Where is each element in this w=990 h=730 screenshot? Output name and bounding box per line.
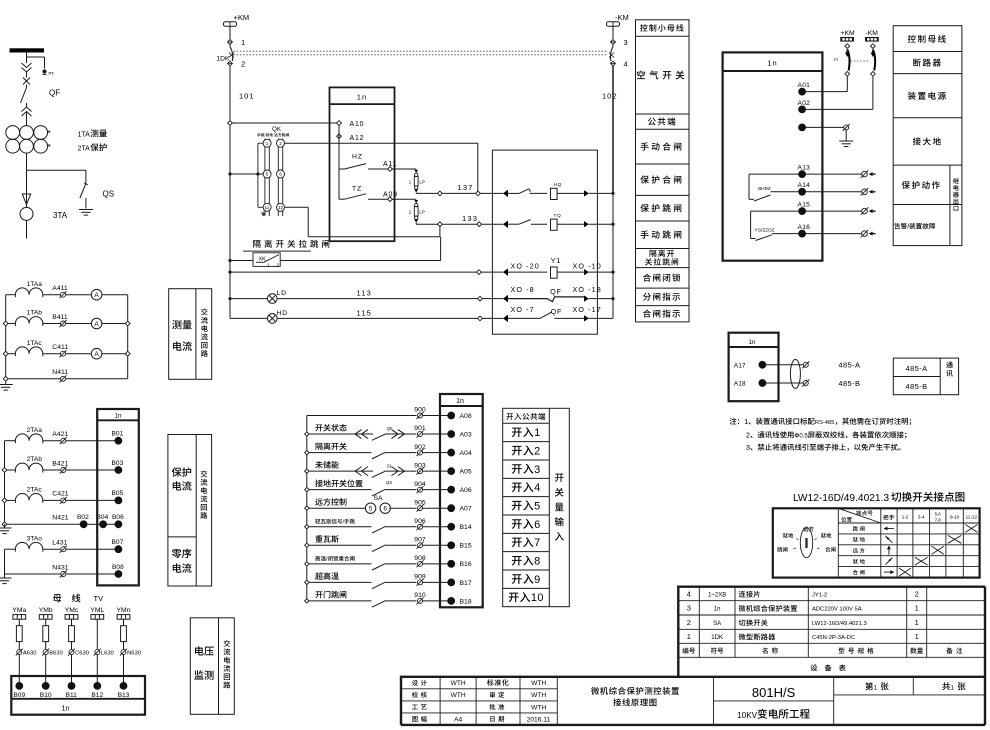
link 2LP bbox=[414, 200, 418, 203]
wire 101 to Y1 row bbox=[228, 271, 231, 274]
svg-text:2016.11: 2016.11 bbox=[527, 716, 551, 723]
svg-text:XO -20: XO -20 bbox=[511, 262, 540, 271]
svg-text:XO -18: XO -18 bbox=[573, 285, 602, 294]
svg-text:4: 4 bbox=[624, 60, 628, 69]
breaker QF bbox=[26, 85, 28, 88]
svg-text:LW12-16D/49.4021.3: LW12-16D/49.4021.3 bbox=[793, 493, 889, 504]
node 137 bbox=[438, 191, 443, 196]
lamp HD bbox=[230, 317, 268, 319]
svg-text:+KM: +KM bbox=[841, 30, 856, 37]
svg-text:A11: A11 bbox=[383, 161, 397, 168]
breaker pole -KM bbox=[871, 44, 876, 49]
svg-text:XO -10: XO -10 bbox=[573, 262, 602, 271]
title row 图幅 bbox=[412, 716, 417, 722]
wire XK to trip net bbox=[280, 260, 440, 262]
svg-text:N421: N421 bbox=[52, 515, 68, 522]
fuse YMn bbox=[121, 626, 127, 642]
svg-text:TZ: TZ bbox=[352, 186, 362, 193]
node 133 bbox=[438, 222, 443, 227]
drawout chevrons lower bbox=[22, 107, 32, 112]
aux contact QF row closed bbox=[482, 298, 503, 300]
DI row 909 B17 bbox=[305, 580, 309, 584]
svg-text:1: 1 bbox=[241, 38, 245, 47]
shield ellipse bbox=[790, 359, 800, 388]
aux contact QF row open bbox=[482, 317, 503, 319]
svg-text:YMb: YMb bbox=[39, 607, 53, 614]
svg-text:1TAc: 1TAc bbox=[27, 340, 43, 347]
wire QK 2 to node 137 drop bbox=[285, 142, 478, 144]
svg-text:3: 3 bbox=[746, 443, 750, 452]
svg-text:QS: QS bbox=[386, 480, 392, 485]
device 1n DI box bbox=[440, 394, 483, 607]
wire QK 12 to trip net bbox=[285, 206, 309, 208]
label box 电压监测 bbox=[190, 618, 234, 715]
CT zero sequence 3TAo bbox=[4, 549, 6, 574]
wire A02 to -KM bbox=[806, 108, 873, 110]
svg-text:2TAc: 2TAc bbox=[27, 487, 43, 494]
svg-text:10: 10 bbox=[531, 592, 544, 604]
wire - feeder drop from busbar bbox=[26, 53, 28, 64]
svg-text:A: A bbox=[94, 292, 99, 299]
svg-text:11-12: 11-12 bbox=[966, 514, 978, 519]
DI row 905 A07 bbox=[305, 506, 309, 510]
X mark row 4 bbox=[915, 557, 928, 565]
svg-text:1n: 1n bbox=[767, 59, 777, 68]
X mark row 2 bbox=[948, 535, 961, 543]
svg-text:9-10: 9-10 bbox=[950, 514, 960, 519]
svg-text:7-8: 7-8 bbox=[935, 518, 942, 523]
svg-text:LP: LP bbox=[419, 179, 424, 184]
terminal B12 bbox=[94, 683, 101, 690]
terminal L630 bbox=[95, 650, 100, 655]
svg-text:B02: B02 bbox=[77, 514, 89, 521]
svg-text:9: 9 bbox=[534, 574, 541, 586]
latch coil Y1 row bbox=[481, 271, 503, 273]
CT 1TA 2TA winding circles bbox=[6, 126, 20, 140]
contact XK box bbox=[253, 253, 280, 267]
terminal A13 bbox=[799, 171, 806, 178]
QK contacts 1 5 11 bbox=[263, 139, 271, 147]
drawing title text bbox=[591, 687, 599, 695]
DI row 910 B18 bbox=[305, 599, 309, 603]
wire 101 to XK bbox=[228, 259, 231, 262]
parts table thick frame bbox=[678, 586, 985, 588]
title row 工艺 bbox=[412, 705, 418, 710]
svg-text:A01: A01 bbox=[798, 82, 811, 89]
DI row 901 A03 bbox=[305, 432, 309, 436]
contact BHDZ bbox=[749, 173, 799, 175]
svg-text:1: 1 bbox=[534, 427, 541, 439]
svg-text:B16: B16 bbox=[460, 561, 472, 568]
svg-text:1TAa: 1TAa bbox=[27, 281, 43, 288]
wire HD to XO-7 row, node 115 bbox=[277, 317, 478, 319]
mechanical link dashed bbox=[234, 50, 609, 52]
svg-text:1: 1 bbox=[687, 632, 691, 641]
svg-text:QF: QF bbox=[387, 426, 393, 431]
svg-text:B18: B18 bbox=[460, 598, 472, 605]
X mark row 5 bbox=[899, 568, 911, 576]
svg-text:A10: A10 bbox=[350, 121, 365, 128]
ground protection loop bbox=[4, 524, 6, 528]
terminal B05 bbox=[115, 497, 122, 504]
svg-text:L630: L630 bbox=[101, 651, 114, 657]
DI row 907 B15 bbox=[305, 543, 309, 547]
terminal XO-8 bbox=[478, 296, 483, 301]
breaker cross mark bbox=[23, 78, 30, 85]
svg-text:1: 1 bbox=[266, 141, 269, 146]
svg-text:QF: QF bbox=[49, 89, 60, 98]
svg-text:A07: A07 bbox=[460, 506, 472, 513]
label 开关量输入 bbox=[555, 474, 564, 482]
svg-text:2: 2 bbox=[409, 210, 412, 215]
wire 137 to HQ bbox=[480, 192, 503, 194]
wire 101 to A10 bbox=[232, 122, 336, 124]
label 母线 TV bbox=[53, 594, 61, 602]
svg-text:1: 1 bbox=[915, 604, 919, 613]
svg-text:WTH: WTH bbox=[531, 704, 546, 711]
terminal case earth bbox=[799, 124, 806, 131]
busbar bbox=[10, 48, 45, 52]
trip coil TQ row bbox=[503, 220, 508, 228]
label 设备表 bbox=[811, 665, 818, 672]
title block bbox=[401, 688, 557, 690]
svg-text:1TAb: 1TAb bbox=[27, 310, 43, 317]
DI row 908 B16 bbox=[305, 562, 309, 566]
lamp LD bbox=[228, 297, 231, 300]
svg-text:HD: HD bbox=[277, 310, 288, 317]
terminal A09 bbox=[388, 197, 393, 202]
terminal 4 bbox=[611, 61, 616, 66]
svg-text:3: 3 bbox=[534, 464, 541, 476]
svg-text:WTH: WTH bbox=[531, 680, 546, 687]
svg-text:YMa: YMa bbox=[12, 607, 26, 614]
svg-text:3TA: 3TA bbox=[53, 211, 68, 220]
output terminal row A13 bbox=[806, 173, 862, 175]
svg-text:485-B: 485-B bbox=[906, 382, 928, 391]
svg-text:485-A: 485-A bbox=[906, 364, 928, 373]
contact YG/ZZDZ bbox=[751, 210, 799, 212]
svg-text:A12: A12 bbox=[350, 135, 365, 142]
svg-text:10KV: 10KV bbox=[737, 711, 758, 720]
wire A10-A12 internal bbox=[338, 125, 340, 199]
svg-text:A4: A4 bbox=[454, 716, 462, 723]
svg-text:B03: B03 bbox=[112, 460, 124, 467]
svg-text:C411: C411 bbox=[52, 344, 68, 351]
svg-text:1: 1 bbox=[915, 618, 919, 627]
svg-text:1DK: 1DK bbox=[711, 635, 723, 641]
header diagonal bbox=[838, 508, 881, 523]
CT 3TA zero-seq circle bbox=[20, 207, 33, 220]
svg-text:6: 6 bbox=[279, 172, 282, 177]
wire A01 to +KM bbox=[806, 91, 848, 93]
svg-text:2: 2 bbox=[534, 446, 541, 458]
svg-text:XO -7: XO -7 bbox=[511, 305, 535, 314]
terminal 1 bbox=[228, 40, 233, 45]
svg-text:XO -8: XO -8 bbox=[511, 285, 535, 294]
svg-text:B04: B04 bbox=[97, 514, 109, 521]
svg-text:A05: A05 bbox=[460, 469, 472, 476]
svg-text:B411: B411 bbox=[52, 314, 68, 321]
svg-text:4: 4 bbox=[687, 589, 691, 598]
terminal C630 bbox=[69, 650, 74, 655]
svg-text:B01: B01 bbox=[112, 431, 124, 438]
svg-text:XO -17: XO -17 bbox=[573, 305, 602, 314]
svg-text:A08: A08 bbox=[460, 413, 472, 420]
svg-text:-KM: -KM bbox=[615, 13, 629, 22]
drawout chevrons upper bbox=[22, 63, 32, 68]
svg-text:A: A bbox=[94, 351, 99, 358]
switch SA contact table bbox=[773, 508, 980, 577]
ground at QS bbox=[79, 209, 93, 211]
svg-text:1TA: 1TA bbox=[78, 132, 91, 139]
wire A11 to link 1LP bbox=[392, 168, 416, 170]
svg-text:JY1-2: JY1-2 bbox=[812, 592, 827, 598]
wire phase row N421 bbox=[5, 523, 81, 525]
svg-text:HZ: HZ bbox=[352, 154, 363, 161]
DI row 906 B14 bbox=[305, 525, 309, 529]
wire left rail measurement bbox=[5, 295, 7, 379]
svg-text:A06: A06 bbox=[460, 487, 472, 494]
terminal A16 bbox=[799, 230, 806, 237]
terminal B01 bbox=[115, 437, 122, 444]
legend table device bbox=[893, 26, 962, 246]
svg-text:3TAo: 3TAo bbox=[27, 535, 43, 542]
svg-text:Y1: Y1 bbox=[551, 256, 562, 265]
wire 2LP to node 133 bbox=[415, 223, 417, 225]
terminal B11 bbox=[68, 683, 75, 690]
svg-text:1: 1 bbox=[874, 686, 878, 692]
terminal A630 bbox=[17, 650, 22, 655]
wire N431 bbox=[5, 573, 61, 575]
svg-text:1n: 1n bbox=[456, 398, 464, 405]
title row 校核 bbox=[412, 692, 418, 698]
svg-text:QF: QF bbox=[550, 289, 562, 296]
svg-text:A14: A14 bbox=[798, 182, 811, 189]
svg-text:+KM: +KM bbox=[234, 13, 250, 22]
ammeter B411 bbox=[66, 323, 92, 325]
wire phase row A411 bbox=[6, 294, 16, 296]
legend table control circuit bbox=[636, 20, 690, 322]
device 1n voltage box bbox=[11, 676, 145, 715]
sub column relay output bbox=[949, 165, 951, 246]
fuse YMa bbox=[16, 626, 22, 642]
breaker pole +KM bbox=[845, 44, 850, 49]
svg-text:B14: B14 bbox=[460, 524, 472, 531]
svg-text:SA: SA bbox=[374, 495, 384, 502]
title row 设计 bbox=[412, 680, 418, 686]
svg-text:2: 2 bbox=[687, 618, 691, 627]
terminal A01 bbox=[799, 88, 806, 95]
terminal B10 bbox=[42, 683, 49, 690]
node A10 tap bbox=[228, 121, 233, 126]
svg-text:11: 11 bbox=[265, 205, 270, 210]
terminal A10 bbox=[337, 121, 342, 126]
breaker 1DK pole bbox=[229, 44, 231, 46]
svg-text:QF: QF bbox=[551, 309, 563, 316]
terminal A14 bbox=[799, 188, 806, 195]
wire LD to XO-8 row, node 113 bbox=[277, 298, 478, 300]
svg-text:WTH: WTH bbox=[451, 692, 466, 699]
label 隔离开关拉跳闸 bbox=[253, 240, 260, 248]
QK tick below contact 11 bbox=[262, 213, 266, 216]
label box 测量电流 bbox=[169, 289, 212, 380]
svg-text:WTH: WTH bbox=[531, 692, 546, 699]
ammeter A411 bbox=[66, 294, 92, 296]
svg-text:2: 2 bbox=[915, 589, 919, 598]
svg-text:A03: A03 bbox=[460, 431, 472, 438]
close coil HQ row bbox=[503, 190, 508, 198]
svg-text:1n: 1n bbox=[357, 92, 367, 101]
svg-text:N411: N411 bbox=[52, 369, 68, 376]
svg-text:101: 101 bbox=[239, 92, 255, 101]
wire - net 102 bbox=[612, 66, 614, 193]
svg-text:SA: SA bbox=[713, 621, 721, 627]
sheet number cells bbox=[912, 677, 914, 695]
wire A09 to link 2LP bbox=[392, 198, 416, 200]
svg-text:B421: B421 bbox=[52, 460, 68, 467]
terminal strip box XO bbox=[492, 150, 597, 334]
label box 保护电流 零序电流 bbox=[168, 435, 212, 587]
svg-text:2: 2 bbox=[279, 141, 282, 146]
svg-text:801H/S: 801H/S bbox=[752, 685, 796, 700]
DI row 900 A08 bbox=[307, 415, 417, 417]
svg-text:2TA: 2TA bbox=[78, 146, 91, 153]
terminal B07 bbox=[115, 546, 122, 553]
wire earth bbox=[806, 126, 844, 128]
svg-text:2: 2 bbox=[746, 431, 750, 440]
svg-text:7: 7 bbox=[534, 537, 541, 549]
svg-text:-KM: -KM bbox=[866, 30, 879, 37]
terminal 485-B bbox=[803, 381, 808, 386]
terminal A02 bbox=[799, 106, 806, 113]
svg-text:A18: A18 bbox=[734, 381, 746, 388]
svg-text:/: / bbox=[326, 557, 328, 563]
arrow on feeder bbox=[22, 194, 30, 205]
svg-text:4: 4 bbox=[534, 482, 541, 494]
mechanical link dashed right bbox=[851, 60, 871, 62]
wire 1LP to node 137 bbox=[415, 192, 417, 195]
svg-text:QK: QK bbox=[272, 126, 282, 133]
svg-text:A: A bbox=[94, 321, 99, 328]
svg-text:A630: A630 bbox=[23, 651, 37, 657]
device 1n control box bbox=[330, 87, 395, 241]
svg-text:C421: C421 bbox=[52, 491, 68, 498]
svg-text:B07: B07 bbox=[112, 539, 124, 546]
wire - PT branch bbox=[27, 56, 45, 58]
svg-text:YG/ZZOZ: YG/ZZOZ bbox=[755, 228, 775, 233]
X mark row 3 bbox=[932, 546, 944, 554]
svg-text:6: 6 bbox=[534, 519, 541, 531]
terminals B02 B04 B06 bbox=[80, 521, 87, 528]
svg-text:1: 1 bbox=[951, 686, 955, 692]
svg-text:2TAb: 2TAb bbox=[27, 456, 43, 463]
svg-text:B630: B630 bbox=[49, 651, 63, 657]
PT voltage transformer bbox=[42, 69, 46, 73]
svg-text:485-B: 485-B bbox=[838, 379, 860, 388]
svg-text:N431: N431 bbox=[52, 564, 68, 571]
svg-text:A04: A04 bbox=[460, 450, 472, 457]
svg-text:/: / bbox=[907, 224, 909, 231]
svg-text:LD: LD bbox=[277, 290, 287, 297]
notes RS485 bbox=[730, 418, 737, 425]
fuse YMc bbox=[69, 626, 75, 642]
svg-text:2: 2 bbox=[277, 262, 280, 268]
svg-text:L431: L431 bbox=[52, 540, 67, 547]
svg-text:TQ: TQ bbox=[554, 213, 562, 219]
svg-text:A17: A17 bbox=[734, 362, 746, 369]
parts list table bbox=[678, 600, 985, 602]
terminal B08 bbox=[115, 571, 122, 578]
svg-text:102: 102 bbox=[602, 92, 618, 101]
device 1n comms box bbox=[729, 333, 779, 402]
svg-text:5: 5 bbox=[266, 172, 269, 177]
svg-text:YMc: YMc bbox=[65, 607, 79, 614]
wire 485 pair bbox=[766, 364, 803, 366]
svg-text:1: 1 bbox=[409, 179, 412, 184]
ground zero seq loop bbox=[4, 574, 6, 578]
svg-text:2TAa: 2TAa bbox=[27, 427, 43, 434]
QK bracket wire bbox=[258, 142, 263, 144]
terminal 485-A bbox=[803, 362, 808, 367]
svg-text:5-6: 5-6 bbox=[935, 512, 942, 517]
svg-text:S1: S1 bbox=[387, 463, 393, 468]
wire phase row A421 bbox=[5, 440, 16, 442]
svg-text:LP: LP bbox=[419, 210, 424, 215]
wire phase row C411 bbox=[6, 353, 16, 355]
switch handle illustration bbox=[800, 528, 812, 558]
wire phase row C421 bbox=[5, 499, 16, 501]
svg-text:1n: 1n bbox=[749, 339, 756, 346]
svg-text:1: 1 bbox=[267, 262, 270, 268]
svg-text:A09: A09 bbox=[383, 191, 398, 198]
svg-text:A421: A421 bbox=[52, 431, 68, 438]
terminal B13 bbox=[120, 683, 127, 690]
wire 101 to QK 5 bbox=[228, 172, 231, 175]
svg-text:ADC220V 100V 5A: ADC220V 100V 5A bbox=[812, 607, 862, 613]
wire right rail measurement bbox=[127, 295, 129, 379]
svg-text:N630: N630 bbox=[127, 651, 141, 657]
wire 133 to TQ bbox=[482, 223, 503, 225]
disconnect QS bbox=[85, 181, 87, 184]
title block thick frame bbox=[401, 676, 985, 678]
wire below CT bbox=[26, 153, 28, 192]
terminal B03 bbox=[115, 467, 122, 474]
svg-text:A16: A16 bbox=[798, 224, 811, 231]
DI row 902 A04 bbox=[305, 450, 309, 454]
terminal XO-20 bbox=[477, 270, 482, 275]
svg-text:PT: PT bbox=[49, 71, 55, 76]
terminal N630 bbox=[121, 650, 126, 655]
svg-text:LW12-16D/49.4021.3: LW12-16D/49.4021.3 bbox=[812, 621, 867, 627]
fuse YMb bbox=[43, 626, 49, 642]
svg-text:1: 1 bbox=[744, 417, 748, 426]
wire phase row N411 bbox=[6, 378, 61, 380]
svg-text:B05: B05 bbox=[112, 490, 124, 497]
svg-text:B08: B08 bbox=[112, 564, 124, 571]
svg-text:115: 115 bbox=[357, 308, 373, 317]
switch rows bbox=[853, 526, 858, 531]
wire - net 101 rail bbox=[229, 66, 231, 319]
ground symbol device bbox=[839, 140, 853, 142]
model 801H/S bbox=[833, 677, 835, 725]
wire DI rail bbox=[306, 416, 308, 601]
svg-text:3: 3 bbox=[624, 38, 628, 47]
svg-text:1n: 1n bbox=[714, 607, 721, 613]
svg-text:1~2XB: 1~2XB bbox=[708, 592, 726, 598]
svg-text:1n: 1n bbox=[62, 706, 70, 713]
terminal 2 bbox=[228, 61, 233, 66]
terminal B09 bbox=[16, 683, 23, 690]
